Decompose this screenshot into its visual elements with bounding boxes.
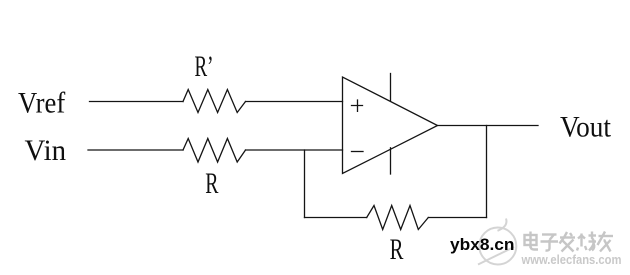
- watermark glyph 3 (fa): [560, 232, 576, 252]
- resistor R (input): [183, 139, 246, 163]
- watermark glyph 2 (zi): [541, 235, 559, 251]
- svg-text:R: R: [205, 167, 218, 200]
- svg-text:ybx8.cn: ybx8.cn: [450, 235, 515, 254]
- wire R' right lead to op-amp noninverting input: [246, 101, 343, 103]
- svg-text:Vout: Vout: [560, 111, 612, 144]
- svg-text:R’: R’: [195, 50, 214, 83]
- wire Vref input to R' left lead: [90, 101, 184, 103]
- op-amp plus input symbol: [352, 100, 363, 111]
- svg-text:www.elecfans.com: www.elecfans.com: [521, 252, 622, 267]
- wire op-amp output to Vout: [438, 125, 539, 127]
- svg-text:Vin: Vin: [25, 134, 67, 167]
- wire feedback vertical from output node down: [486, 126, 488, 218]
- svg-text:R: R: [390, 233, 404, 266]
- svg-text:Vref: Vref: [18, 87, 65, 120]
- watermark glyph 4 (shao): [577, 232, 596, 251]
- resistor R (feedback): [367, 206, 429, 230]
- watermark glyph 1 (dian): [525, 232, 539, 250]
- watermark swirl logo: [478, 219, 516, 265]
- wire feedback bottom right segment: [428, 217, 486, 219]
- op-amp U1 triangle body: [343, 77, 438, 174]
- wire feedback bottom left segment: [305, 217, 367, 219]
- resistor R': [183, 90, 246, 113]
- watermark glyph 5 (you): [598, 232, 614, 252]
- wire Vin input to R left lead: [88, 149, 183, 151]
- op-amp positive supply pin: [390, 74, 392, 101]
- wire feedback bottom from inverting node down: [304, 150, 306, 218]
- wire R right lead to op-amp inverting input (node at x=305): [246, 149, 343, 151]
- op-amp negative supply pin: [390, 148, 392, 174]
- op-amp minus input symbol: [352, 151, 364, 153]
